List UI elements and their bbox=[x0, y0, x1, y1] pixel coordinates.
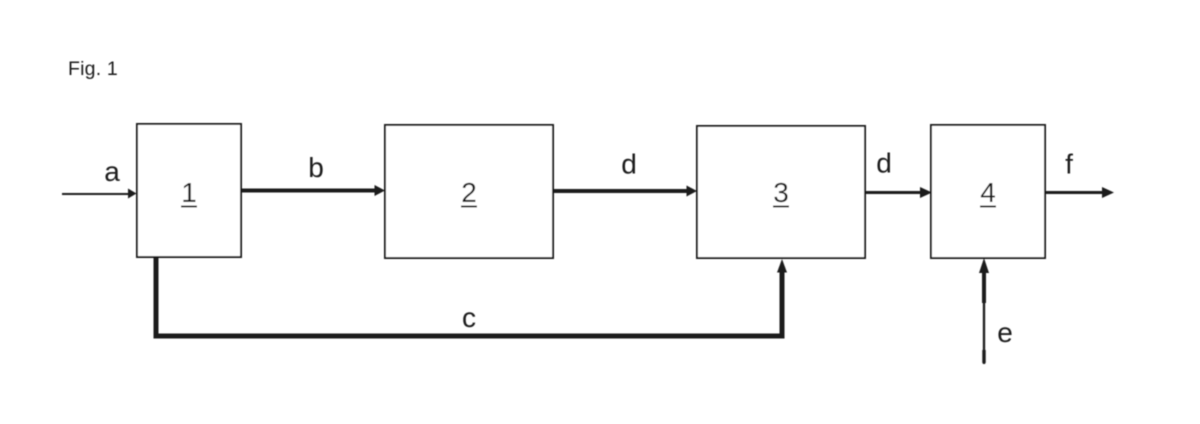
svg-text:d: d bbox=[876, 148, 892, 179]
svg-text:c: c bbox=[462, 302, 476, 333]
svg-text:a: a bbox=[104, 156, 120, 187]
svg-text:4: 4 bbox=[980, 177, 996, 208]
svg-text:2: 2 bbox=[461, 177, 477, 208]
svg-text:e: e bbox=[997, 317, 1013, 348]
svg-text:1: 1 bbox=[181, 177, 197, 208]
svg-text:d: d bbox=[621, 149, 637, 180]
svg-text:Fig. 1: Fig. 1 bbox=[68, 58, 118, 80]
svg-text:f: f bbox=[1065, 149, 1073, 180]
svg-text:3: 3 bbox=[773, 177, 789, 208]
svg-text:b: b bbox=[308, 152, 324, 183]
